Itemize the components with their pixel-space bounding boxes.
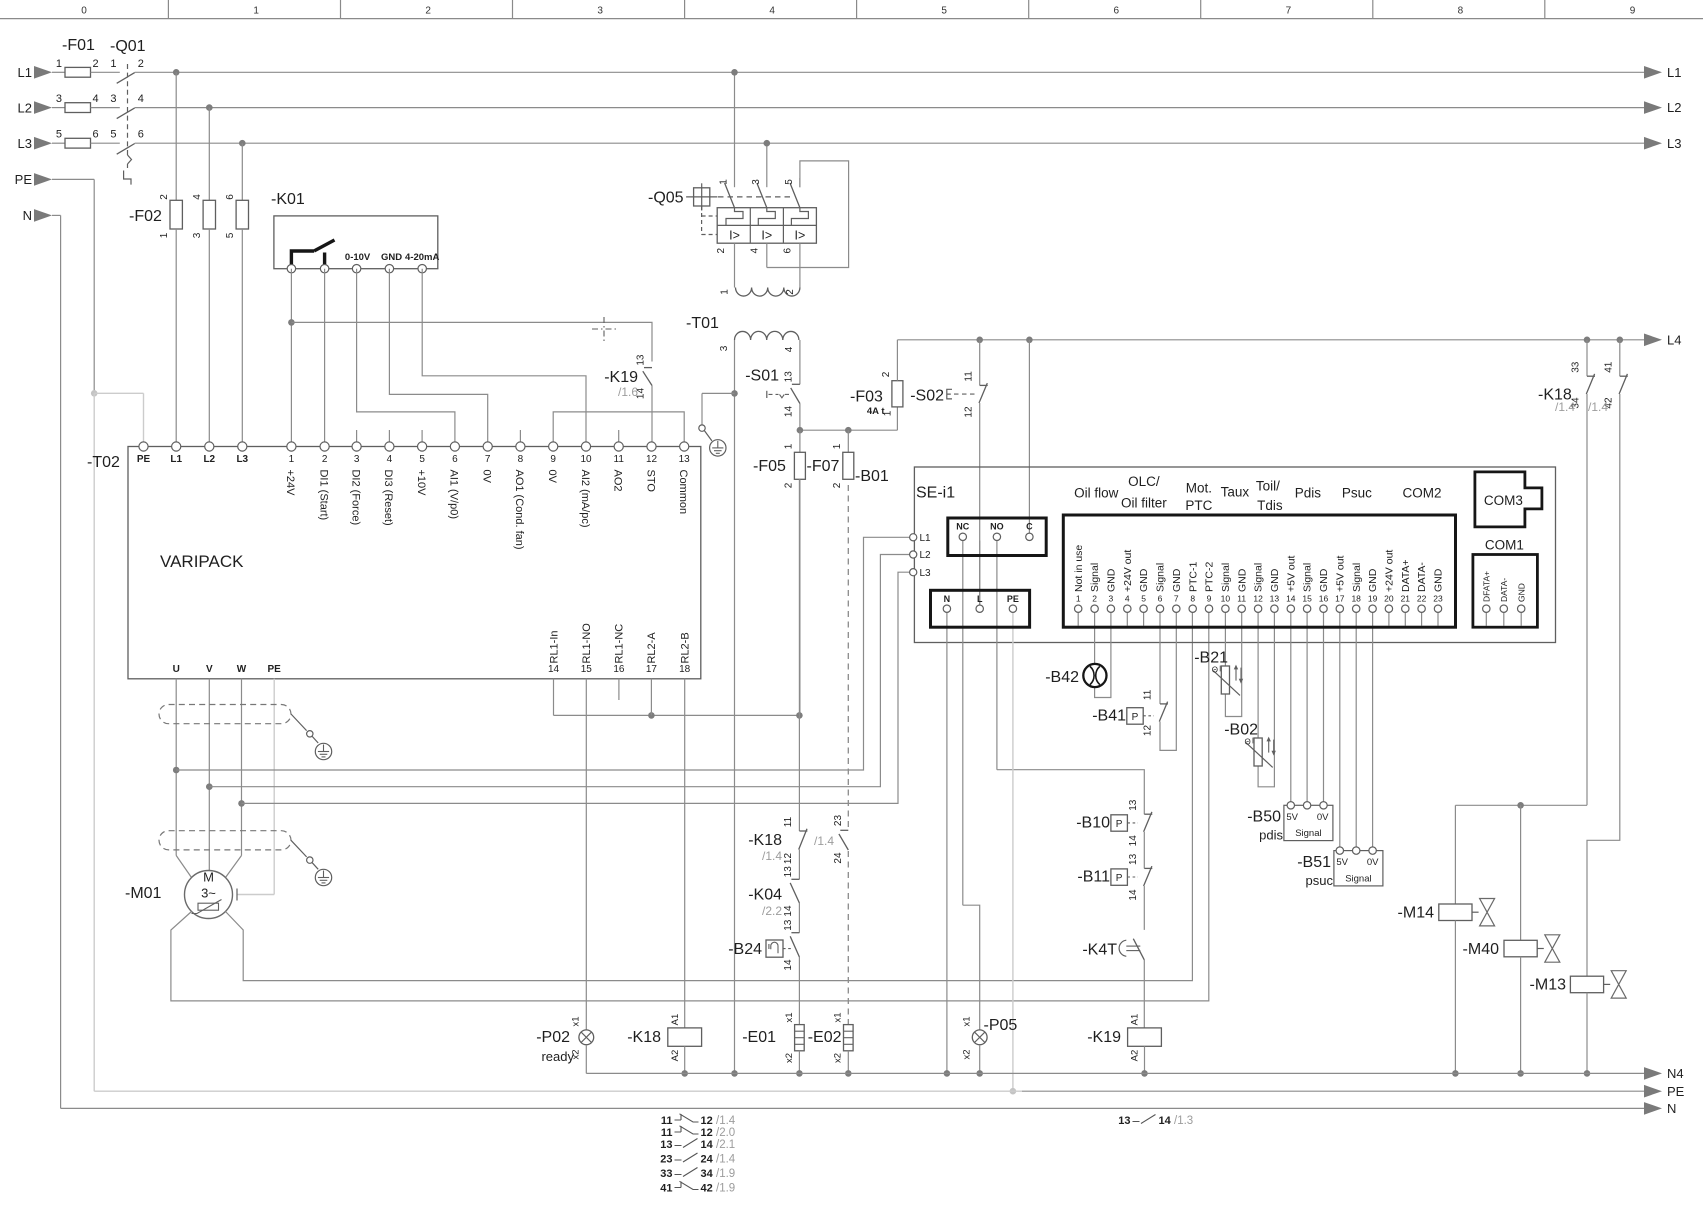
- svg-text:7: 7: [1174, 594, 1179, 604]
- svg-text:Signal: Signal: [1351, 563, 1363, 592]
- svg-text:x1: x1: [784, 1012, 795, 1022]
- svg-text:2: 2: [716, 247, 727, 253]
- svg-text:11: 11: [963, 371, 974, 382]
- svg-text:16: 16: [1319, 594, 1329, 604]
- svg-text:+10V: +10V: [415, 470, 427, 497]
- svg-text:NO: NO: [990, 522, 1004, 532]
- svg-text:RL1-NO: RL1-NO: [581, 623, 593, 664]
- svg-text:5: 5: [56, 129, 62, 141]
- svg-text:14: 14: [783, 905, 794, 917]
- svg-text:AO2: AO2: [612, 470, 624, 492]
- svg-text:14: 14: [701, 1139, 714, 1151]
- svg-text:23: 23: [1433, 594, 1443, 604]
- svg-text:11: 11: [783, 816, 794, 827]
- svg-text:23: 23: [833, 815, 844, 827]
- svg-text:-Q05: -Q05: [648, 190, 684, 207]
- svg-text:2: 2: [322, 454, 328, 465]
- svg-text:GND: GND: [1171, 568, 1183, 592]
- svg-text:-K01: -K01: [271, 191, 305, 208]
- svg-text:x2: x2: [833, 1053, 844, 1063]
- svg-text:13: 13: [1270, 594, 1280, 604]
- svg-text:/1.6: /1.6: [618, 385, 638, 399]
- svg-text:9: 9: [1207, 594, 1212, 604]
- svg-text:41: 41: [1604, 361, 1615, 373]
- svg-text:PE: PE: [1007, 594, 1019, 604]
- svg-text:14: 14: [784, 406, 795, 418]
- svg-text:-K04: -K04: [748, 887, 782, 904]
- svg-text:-K18: -K18: [748, 832, 782, 849]
- svg-text:GND: GND: [1106, 568, 1118, 592]
- svg-text:34: 34: [701, 1168, 714, 1180]
- svg-text:Mot.: Mot.: [1186, 481, 1212, 496]
- svg-text:Signal: Signal: [1220, 563, 1232, 592]
- svg-text:14: 14: [1159, 1115, 1172, 1127]
- svg-text:6: 6: [1114, 6, 1120, 17]
- svg-text:/1.4: /1.4: [716, 1154, 736, 1166]
- svg-text:AO1 (Cond. fan): AO1 (Cond. fan): [513, 470, 525, 550]
- svg-text:1: 1: [289, 454, 295, 465]
- svg-text:1: 1: [56, 58, 62, 70]
- svg-text:1: 1: [159, 232, 170, 238]
- svg-text:COM3: COM3: [1484, 493, 1523, 508]
- svg-text:DI1 (Start): DI1 (Start): [317, 470, 329, 521]
- svg-text:13: 13: [660, 1139, 672, 1151]
- svg-text:6: 6: [138, 129, 144, 141]
- svg-text:2: 2: [138, 58, 144, 70]
- svg-text:5: 5: [784, 179, 795, 185]
- svg-text:13: 13: [1128, 853, 1139, 865]
- svg-text:V: V: [206, 664, 213, 675]
- svg-text:2: 2: [832, 482, 843, 488]
- svg-text:-Q01: -Q01: [110, 38, 146, 55]
- svg-text:-K18: -K18: [627, 1029, 661, 1046]
- svg-text:DATA-: DATA-: [1499, 578, 1509, 602]
- svg-text:4: 4: [192, 194, 203, 200]
- svg-text:12: 12: [963, 406, 974, 418]
- svg-text:15: 15: [1302, 594, 1312, 604]
- svg-text:-S01: -S01: [745, 368, 779, 385]
- svg-text:C: C: [1026, 522, 1033, 532]
- svg-text:8: 8: [1458, 6, 1464, 17]
- svg-text:12: 12: [783, 853, 794, 865]
- svg-text:11: 11: [1143, 689, 1154, 700]
- svg-text:0V: 0V: [1367, 857, 1379, 868]
- svg-text:/2.1: /2.1: [716, 1139, 735, 1151]
- svg-text:U: U: [173, 664, 180, 675]
- svg-text:/1.3: /1.3: [1174, 1115, 1193, 1127]
- svg-text:3: 3: [751, 179, 762, 185]
- svg-text:/1.4: /1.4: [1555, 400, 1575, 414]
- svg-text:Psuc: Psuc: [1342, 486, 1372, 501]
- svg-text:RL2-B: RL2-B: [680, 632, 692, 663]
- svg-text:N: N: [944, 594, 951, 604]
- svg-text:GND: GND: [1517, 583, 1527, 602]
- svg-text:L2: L2: [18, 100, 32, 115]
- svg-text:Common: Common: [677, 470, 689, 515]
- svg-text:GND: GND: [1138, 568, 1150, 592]
- svg-text:COM2: COM2: [1402, 486, 1441, 501]
- svg-text:2: 2: [425, 6, 431, 17]
- svg-text:L: L: [977, 594, 983, 604]
- svg-text:23: 23: [660, 1154, 672, 1166]
- svg-text:-S02: -S02: [910, 388, 944, 405]
- svg-text:PE: PE: [137, 454, 151, 465]
- svg-text:ready: ready: [541, 1049, 574, 1064]
- svg-text:-F03: -F03: [850, 389, 883, 406]
- svg-text:I>: I>: [761, 229, 772, 243]
- svg-text:33: 33: [1571, 361, 1582, 373]
- svg-text:14: 14: [548, 664, 560, 675]
- svg-text:-K4T: -K4T: [1082, 942, 1117, 959]
- svg-text:5V: 5V: [1336, 857, 1348, 868]
- svg-text:16: 16: [613, 664, 625, 675]
- svg-text:PE: PE: [1667, 1084, 1685, 1099]
- svg-text:41: 41: [660, 1183, 672, 1195]
- svg-text:STO: STO: [644, 470, 656, 493]
- svg-text:4: 4: [769, 6, 775, 17]
- svg-text:18: 18: [1351, 594, 1361, 604]
- svg-text:L1: L1: [18, 65, 32, 80]
- svg-text:RL1-In: RL1-In: [548, 630, 560, 663]
- svg-text:-F07: -F07: [807, 458, 840, 475]
- svg-text:P: P: [1116, 873, 1123, 884]
- svg-text:2: 2: [1092, 594, 1097, 604]
- svg-text:0V: 0V: [481, 470, 493, 484]
- svg-text:42: 42: [701, 1183, 713, 1195]
- svg-text:L3: L3: [236, 454, 248, 465]
- svg-text:L3: L3: [1667, 136, 1681, 151]
- svg-text:-B51: -B51: [1297, 854, 1331, 871]
- svg-text:AI2 (mA/pc): AI2 (mA/pc): [579, 470, 591, 528]
- svg-text:Not in use: Not in use: [1073, 545, 1085, 592]
- svg-text:1: 1: [832, 443, 843, 449]
- svg-text:+24V out: +24V out: [1384, 550, 1396, 592]
- svg-text:A1: A1: [1129, 1014, 1140, 1026]
- svg-text:18: 18: [679, 664, 691, 675]
- svg-text:+5V out: +5V out: [1334, 555, 1346, 592]
- svg-text:6: 6: [93, 129, 99, 141]
- svg-text:I>: I>: [729, 229, 740, 243]
- svg-text:3: 3: [56, 93, 62, 105]
- svg-text:-K19: -K19: [604, 369, 638, 386]
- svg-text:-M13: -M13: [1530, 977, 1567, 994]
- svg-text:x1: x1: [962, 1016, 973, 1026]
- svg-text:0V: 0V: [546, 470, 558, 484]
- svg-text:N: N: [23, 208, 32, 223]
- svg-text:Signal: Signal: [1253, 563, 1265, 592]
- svg-text:COM1: COM1: [1485, 538, 1524, 553]
- svg-text:1: 1: [719, 289, 730, 295]
- svg-text:-F01: -F01: [62, 37, 95, 54]
- svg-text:Signal: Signal: [1345, 874, 1371, 885]
- svg-text:PTC: PTC: [1185, 498, 1212, 513]
- svg-text:11: 11: [661, 1115, 673, 1127]
- svg-text:12: 12: [701, 1115, 713, 1127]
- svg-text:12: 12: [1253, 594, 1263, 604]
- svg-text:24: 24: [701, 1154, 714, 1166]
- svg-text:-B41: -B41: [1092, 707, 1126, 724]
- svg-text:N: N: [1667, 1101, 1676, 1116]
- svg-text:13: 13: [783, 866, 794, 878]
- svg-text:/2.2: /2.2: [762, 904, 782, 918]
- svg-text:8: 8: [1190, 594, 1195, 604]
- svg-text:13: 13: [1118, 1115, 1130, 1127]
- svg-text:PTC-2: PTC-2: [1204, 562, 1216, 592]
- svg-text:10: 10: [1221, 594, 1231, 604]
- svg-text:GND: GND: [1236, 568, 1248, 592]
- svg-text:6: 6: [1158, 594, 1163, 604]
- svg-text:14: 14: [1128, 835, 1139, 847]
- svg-text:L2: L2: [203, 454, 215, 465]
- svg-text:+24V out: +24V out: [1122, 550, 1134, 592]
- svg-text:2: 2: [881, 371, 892, 377]
- svg-text:-M40: -M40: [1463, 941, 1500, 958]
- svg-text:L1: L1: [170, 454, 182, 465]
- svg-text:-B10: -B10: [1076, 815, 1110, 832]
- svg-text:6: 6: [782, 247, 793, 253]
- svg-text:13: 13: [679, 454, 691, 465]
- svg-text:L1: L1: [1667, 65, 1681, 80]
- svg-text:A2: A2: [1129, 1050, 1140, 1062]
- svg-text:21: 21: [1401, 594, 1411, 604]
- svg-text:1: 1: [784, 443, 795, 449]
- svg-text:psuc: psuc: [1306, 873, 1334, 888]
- svg-text:4: 4: [1125, 594, 1130, 604]
- svg-text:14: 14: [783, 959, 794, 971]
- svg-text:-M01: -M01: [125, 885, 162, 902]
- svg-text:x2: x2: [784, 1053, 795, 1063]
- svg-text:20: 20: [1384, 594, 1394, 604]
- svg-text:GND: GND: [1318, 568, 1330, 592]
- svg-text:24: 24: [833, 852, 844, 864]
- svg-text:DFATA+: DFATA+: [1482, 571, 1492, 602]
- svg-text:/1.4: /1.4: [1588, 400, 1608, 414]
- svg-text:11: 11: [1237, 594, 1246, 604]
- svg-text:-B50: -B50: [1247, 809, 1281, 826]
- svg-text:17: 17: [1335, 594, 1345, 604]
- svg-text:SE-i1: SE-i1: [916, 485, 955, 502]
- svg-text:2: 2: [784, 482, 795, 488]
- svg-text:3: 3: [192, 232, 203, 238]
- svg-text:4: 4: [93, 93, 99, 105]
- svg-text:RL2-A: RL2-A: [646, 632, 658, 664]
- svg-text:0V: 0V: [1317, 812, 1329, 823]
- svg-text:-K19: -K19: [1087, 1029, 1121, 1046]
- svg-text:PTC-1: PTC-1: [1187, 562, 1199, 592]
- svg-text:13: 13: [784, 371, 795, 383]
- svg-text:+24V: +24V: [284, 470, 296, 497]
- svg-text:1: 1: [110, 58, 116, 70]
- svg-text:13: 13: [1128, 799, 1139, 811]
- svg-text:L2: L2: [1667, 100, 1681, 115]
- svg-text:-B02: -B02: [1224, 722, 1258, 739]
- svg-text:0-10V: 0-10V: [345, 252, 371, 263]
- svg-text:0: 0: [81, 6, 87, 17]
- svg-text:-B42: -B42: [1045, 669, 1079, 686]
- svg-text:+5V out: +5V out: [1285, 555, 1297, 592]
- svg-text:22: 22: [1417, 594, 1427, 604]
- svg-text:5: 5: [419, 454, 425, 465]
- svg-text:15: 15: [581, 664, 593, 675]
- svg-text:-M14: -M14: [1398, 905, 1435, 922]
- svg-text:Pdis: Pdis: [1295, 486, 1322, 501]
- svg-text:pdis: pdis: [1259, 828, 1283, 843]
- svg-text:L3: L3: [920, 568, 932, 579]
- svg-text:6: 6: [452, 454, 458, 465]
- svg-text:OLC/: OLC/: [1128, 474, 1160, 489]
- svg-text:-P05: -P05: [984, 1017, 1018, 1034]
- svg-text:Signal: Signal: [1295, 828, 1321, 839]
- svg-text:19: 19: [1368, 594, 1378, 604]
- svg-text:-B24: -B24: [728, 941, 762, 958]
- svg-text:Signal: Signal: [1155, 563, 1167, 592]
- svg-text:12: 12: [1143, 725, 1154, 737]
- svg-text:3~: 3~: [201, 886, 216, 901]
- svg-text:3: 3: [110, 93, 116, 105]
- svg-text:Tdis: Tdis: [1257, 498, 1283, 513]
- svg-text:Θ: Θ: [1212, 666, 1218, 675]
- svg-text:VARIPACK: VARIPACK: [160, 552, 244, 571]
- svg-text:PE: PE: [15, 172, 33, 187]
- svg-text:GND: GND: [1269, 568, 1281, 592]
- svg-text:N4: N4: [1667, 1066, 1684, 1081]
- svg-text:8: 8: [518, 454, 524, 465]
- svg-text:W: W: [237, 664, 247, 675]
- svg-text:L2: L2: [920, 550, 932, 561]
- svg-text:5V: 5V: [1286, 812, 1298, 823]
- svg-text:A2: A2: [670, 1050, 681, 1062]
- svg-text:5: 5: [110, 129, 116, 141]
- svg-text:1: 1: [1076, 594, 1081, 604]
- svg-text:4: 4: [749, 247, 760, 253]
- svg-text:Θ: Θ: [1244, 738, 1250, 747]
- svg-text:x2: x2: [962, 1049, 973, 1059]
- svg-text:L1: L1: [920, 533, 932, 544]
- svg-text:/1.4: /1.4: [762, 849, 782, 863]
- svg-text:I>: I>: [795, 229, 806, 243]
- svg-text:Oil flow: Oil flow: [1074, 486, 1119, 501]
- svg-text:x1: x1: [833, 1012, 844, 1022]
- svg-text:2: 2: [93, 58, 99, 70]
- svg-text:Signal: Signal: [1302, 563, 1314, 592]
- svg-text:10: 10: [580, 454, 592, 465]
- svg-text:x1: x1: [571, 1016, 582, 1026]
- svg-text:-E02: -E02: [808, 1029, 842, 1046]
- svg-text:/1.4: /1.4: [814, 834, 834, 848]
- svg-text:13: 13: [783, 919, 794, 931]
- svg-text:L3: L3: [18, 136, 32, 151]
- svg-text:GND: GND: [1367, 568, 1379, 592]
- svg-text:6: 6: [225, 194, 236, 200]
- svg-text:9: 9: [1630, 6, 1636, 17]
- svg-text:-B01: -B01: [855, 468, 889, 485]
- svg-text:14: 14: [1286, 594, 1296, 604]
- svg-text:5: 5: [1141, 594, 1146, 604]
- svg-text:33: 33: [660, 1168, 672, 1180]
- svg-text:7: 7: [1286, 6, 1292, 17]
- svg-text:L4: L4: [1667, 332, 1681, 347]
- svg-text:DI3 (Reset): DI3 (Reset): [382, 470, 394, 526]
- svg-text:4A t: 4A t: [867, 406, 885, 417]
- svg-text:Oil filter: Oil filter: [1121, 496, 1167, 511]
- svg-text:17: 17: [646, 664, 658, 675]
- svg-text:7: 7: [485, 454, 491, 465]
- svg-text:4: 4: [784, 346, 795, 352]
- svg-text:3: 3: [354, 454, 360, 465]
- svg-text:DATA-: DATA-: [1416, 562, 1428, 592]
- svg-text:3: 3: [1109, 594, 1114, 604]
- svg-text:DI2 (Force): DI2 (Force): [349, 470, 361, 526]
- svg-text:9: 9: [550, 454, 556, 465]
- svg-text:13: 13: [636, 354, 647, 366]
- svg-text:11: 11: [661, 1127, 673, 1139]
- svg-text:GND: GND: [381, 252, 402, 263]
- svg-text:12: 12: [701, 1127, 713, 1139]
- svg-text:-P02: -P02: [536, 1029, 570, 1046]
- svg-text:/1.4: /1.4: [716, 1115, 736, 1127]
- svg-text:P: P: [1116, 819, 1123, 830]
- svg-text:5: 5: [941, 6, 947, 17]
- svg-text:-B11: -B11: [1077, 869, 1110, 886]
- svg-text:Taux: Taux: [1221, 485, 1250, 500]
- svg-text:2: 2: [785, 289, 796, 295]
- svg-text:5: 5: [225, 232, 236, 238]
- svg-text:P: P: [1132, 712, 1139, 723]
- svg-text:12: 12: [646, 454, 658, 465]
- svg-text:M: M: [203, 870, 214, 885]
- svg-text:RL1-NC: RL1-NC: [614, 624, 626, 664]
- svg-text:4: 4: [138, 93, 144, 105]
- svg-text:/1.9: /1.9: [716, 1168, 735, 1180]
- svg-text:DATA+: DATA+: [1400, 559, 1412, 592]
- svg-text:4: 4: [387, 454, 393, 465]
- svg-text:Toil/: Toil/: [1256, 479, 1280, 494]
- svg-text:3: 3: [597, 6, 603, 17]
- svg-text:/2.0: /2.0: [716, 1127, 735, 1139]
- svg-text:AI1 (V/p0): AI1 (V/p0): [448, 470, 460, 520]
- svg-text:14: 14: [1128, 889, 1139, 901]
- svg-text:-F05: -F05: [753, 458, 786, 475]
- svg-text:1: 1: [253, 6, 259, 17]
- svg-text:2: 2: [159, 194, 170, 200]
- svg-text:11: 11: [614, 454, 625, 465]
- svg-text:-B21: -B21: [1194, 650, 1228, 667]
- svg-text:Signal: Signal: [1089, 563, 1101, 592]
- svg-text:-E01: -E01: [742, 1029, 776, 1046]
- svg-text:-T01: -T01: [686, 315, 719, 332]
- svg-text:A1: A1: [670, 1014, 681, 1026]
- svg-text:/1.9: /1.9: [716, 1183, 735, 1195]
- svg-text:GND: GND: [1433, 568, 1445, 592]
- svg-text:PE: PE: [268, 664, 282, 675]
- svg-text:-F02: -F02: [129, 208, 162, 225]
- svg-text:1: 1: [719, 179, 730, 185]
- svg-text:3: 3: [719, 345, 730, 351]
- svg-text:NC: NC: [956, 522, 969, 532]
- svg-text:-T02: -T02: [87, 454, 120, 471]
- svg-text:4-20mA: 4-20mA: [405, 252, 439, 263]
